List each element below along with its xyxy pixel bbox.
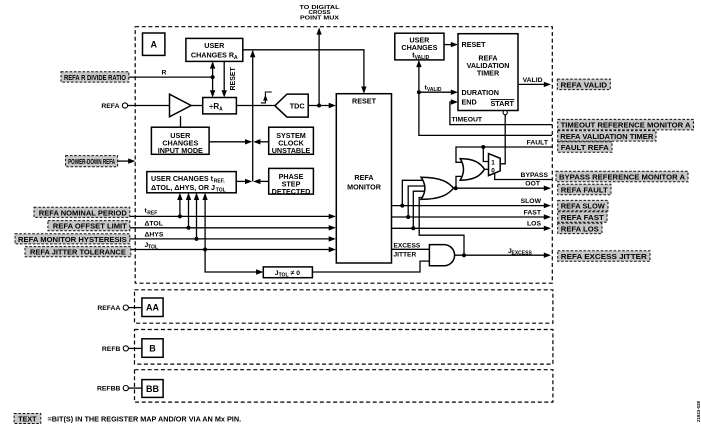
svg-text:=BIT(S) IN THE REGISTER MAP AN: =BIT(S) IN THE REGISTER MAP AND/OR VIA A… — [48, 414, 242, 423]
svg-text:≠ 0: ≠ 0 — [291, 270, 301, 277]
wire POWER-DOWN REFA arrow — [118, 158, 136, 163]
node FAST riser — [406, 186, 424, 219]
comparator JTOL not equal 0 — [263, 267, 312, 279]
dashed channel box A — [135, 27, 552, 284]
svg-text:RESET: RESET — [462, 40, 487, 49]
svg-text:VALID: VALID — [523, 77, 543, 84]
svg-text:BB: BB — [146, 384, 159, 394]
svg-text:REFA LOS: REFA LOS — [561, 224, 599, 233]
register REFA FAULT — [558, 184, 611, 195]
wire JTOL down to comparator — [205, 250, 263, 275]
svg-text:TOL: TOL — [216, 188, 226, 194]
svg-text:BYPASS: BYPASS — [521, 172, 549, 179]
register REFA SLOW — [558, 200, 608, 211]
svg-text:B: B — [149, 343, 156, 353]
svg-text:SLOW: SLOW — [521, 198, 542, 205]
wire R down into divider — [210, 77, 215, 97]
svg-text:RESET: RESET — [352, 96, 377, 105]
svg-text:FAULT: FAULT — [527, 140, 549, 147]
svg-text:REFA: REFA — [354, 173, 373, 182]
wire JTOL line — [131, 242, 336, 252]
svg-text:CHANGES: CHANGES — [401, 43, 437, 52]
svg-text:REFBB: REFBB — [97, 386, 121, 393]
pin REFAA — [97, 305, 142, 312]
wire tVALID up into user changes tvalid — [416, 60, 421, 92]
svg-text:REFA VALIDATION TIMER: REFA VALIDATION TIMER — [560, 132, 654, 141]
svg-text:VALID: VALID — [427, 87, 442, 93]
svg-text:OOT: OOT — [525, 181, 541, 188]
TDC block — [275, 94, 308, 117]
node tVALID — [417, 90, 421, 94]
svg-text:JITTER: JITTER — [394, 251, 417, 258]
wire START down to mux output — [500, 115, 505, 164]
svg-text:A: A — [150, 39, 157, 49]
svg-text:REFA: REFA — [101, 103, 119, 110]
svg-text:START: START — [491, 99, 515, 108]
label TO DIGITAL CROSS POINT MUX — [300, 5, 341, 22]
wire tVALID to DURATION — [419, 84, 458, 95]
wire dHYS line — [130, 232, 336, 242]
register REFA NOMINAL PERIOD — [34, 207, 130, 217]
register REFA MONITOR HYSTERESIS — [15, 234, 130, 244]
svg-text:TOL: TOL — [148, 245, 158, 251]
node TDC output — [317, 104, 321, 108]
dashed channel box AA — [135, 290, 553, 323]
wire to digital cross point mux — [317, 27, 322, 105]
register REFA VALID — [557, 79, 610, 90]
register REFA VALIDATION TIMER — [558, 131, 656, 142]
register TEXT legend — [14, 414, 41, 424]
wire small OR output to mux input 0 — [485, 168, 489, 170]
svg-text:R: R — [162, 70, 167, 77]
svg-text:RESET: RESET — [230, 66, 237, 90]
register BYPASS REFERENCE MONITOR A — [556, 171, 688, 182]
svg-text:UNSTABLE: UNSTABLE — [272, 146, 311, 155]
dashed channel box B — [135, 330, 553, 365]
svg-text:EXCESS: EXCESS — [512, 250, 533, 256]
wire OOT output — [456, 181, 551, 191]
wire R from divide ratio register — [129, 70, 213, 78]
wire JEXCESS output — [455, 248, 551, 258]
wire BYPASS select — [495, 172, 552, 180]
node LOS riser — [411, 191, 424, 230]
wire EXCESS JITTER to AND gate — [392, 242, 430, 258]
node FAULT — [481, 145, 485, 149]
register FAULT REFA — [558, 142, 612, 153]
pin REFB — [102, 346, 142, 353]
svg-text:REF: REF — [147, 210, 157, 216]
svg-text:TIMER: TIMER — [477, 69, 500, 78]
OR gate U2 (2-input) — [460, 159, 484, 181]
node JTOL riser — [202, 193, 207, 252]
box SYSTEM CLOCK UNSTABLE — [269, 127, 314, 155]
wire user changes tref to collector — [236, 179, 252, 184]
svg-text:AA: AA — [146, 303, 159, 313]
wire collector up-arrow into reset wire — [250, 50, 255, 181]
svg-text:ΔTOL, ΔHYS, OR J: ΔTOL, ΔHYS, OR J — [151, 183, 215, 192]
svg-text:USER CHANGES t: USER CHANGES t — [151, 174, 214, 183]
svg-text:REFA R DIVIDE RATIO: REFA R DIVIDE RATIO — [64, 73, 126, 82]
svg-text:REFA EXCESS JITTER: REFA EXCESS JITTER — [561, 252, 648, 261]
block REFA MONITOR — [336, 94, 391, 263]
svg-text:ΔTOL: ΔTOL — [145, 220, 163, 227]
svg-text:REFA MONITOR HYSTERESIS: REFA MONITOR HYSTERESIS — [18, 235, 127, 244]
svg-text:TIMEOUT: TIMEOUT — [452, 116, 483, 123]
block REFA VALIDATION TIMER — [458, 34, 518, 111]
register REFA JITTER TOLERANCE — [25, 247, 131, 257]
box PHASE STEP DETECTED — [269, 168, 314, 196]
svg-text:FAULT REFA: FAULT REFA — [561, 143, 609, 152]
wire reset from USER CHANGES RA to REFA MONITOR — [243, 50, 367, 94]
phase step glyph — [261, 92, 272, 103]
wire RESET from USER CHANGES RA to divider — [222, 61, 237, 97]
OR gate U1 (4-input) — [421, 177, 454, 199]
register REFA LOS — [558, 223, 602, 234]
wire tVALID from REFA VALIDATION TIMER register — [419, 92, 552, 135]
svg-text:BYPASS REFERENCE MONITOR A: BYPASS REFERENCE MONITOR A — [559, 173, 685, 182]
svg-text:MONITOR: MONITOR — [347, 182, 382, 191]
wire FAULT line — [456, 140, 552, 163]
buffer amplifier — [170, 94, 192, 117]
wire LOS line — [392, 221, 552, 231]
wire JEXCESS feedback riser to OR input 4 — [419, 198, 464, 256]
svg-text:VALID: VALID — [415, 55, 430, 61]
identifier box AA — [142, 298, 163, 317]
wire R up into USER CHANGES RA — [210, 61, 215, 77]
wire SLOW line — [392, 198, 552, 208]
register POWER-DOWN REFA — [66, 156, 118, 167]
svg-text:TDC: TDC — [290, 101, 305, 110]
pin REFA — [101, 103, 127, 110]
register REFA OFFSET LIMIT — [48, 221, 130, 231]
svg-text:LOS: LOS — [527, 221, 541, 228]
pin START bubble — [503, 111, 507, 115]
node JEXCESS — [462, 253, 466, 257]
wire buffer to USER CHANGES INPUT MODE — [180, 116, 182, 127]
svg-text:REF,: REF, — [214, 179, 225, 185]
svg-text:ΔHYS: ΔHYS — [145, 232, 164, 239]
svg-text:TIMEOUT REFERENCE MONITOR A: TIMEOUT REFERENCE MONITOR A — [561, 121, 691, 130]
svg-text:FAST: FAST — [524, 209, 542, 216]
svg-text:REFA NOMINAL PERIOD: REFA NOMINAL PERIOD — [39, 208, 127, 217]
register REFA R DIVIDE RATIO — [61, 72, 129, 82]
svg-text:DETECTED: DETECTED — [272, 187, 311, 196]
identifier box BB — [142, 380, 163, 398]
wire FAST line — [392, 209, 552, 219]
svg-text:REFB: REFB — [102, 346, 121, 353]
svg-text:DURATION: DURATION — [462, 88, 499, 97]
wire FAULT node to mux input 1 — [483, 147, 488, 162]
AND gate U3 — [429, 245, 454, 266]
wire tREF line — [130, 208, 336, 219]
node R — [211, 75, 215, 79]
node OOT — [454, 186, 458, 190]
svg-text:EXCESS: EXCESS — [394, 242, 421, 249]
box USER CHANGES tREF dTOL dHYS JTOL — [147, 172, 236, 194]
svg-text:1: 1 — [491, 159, 495, 166]
wire phase step detected to collector — [253, 179, 269, 184]
wire system clock unstable to collector — [253, 139, 269, 144]
svg-text:END: END — [462, 98, 477, 107]
svg-text:POINT MUX: POINT MUX — [300, 16, 339, 22]
svg-text:REFA FAULT: REFA FAULT — [561, 186, 609, 195]
box USER CHANGES RA — [186, 38, 243, 61]
node dHYS riser — [194, 193, 199, 241]
wire input mode to collector — [209, 139, 252, 144]
identifier box B — [142, 339, 163, 358]
svg-text:REFAA: REFAA — [97, 305, 120, 312]
svg-text:INPUT MODE: INPUT MODE — [158, 146, 203, 155]
box USER CHANGES INPUT MODE — [151, 127, 209, 155]
node dTOL riser — [186, 193, 191, 230]
svg-text:TOL: TOL — [279, 272, 289, 278]
wire dTOL line — [130, 220, 336, 230]
identifier box A — [143, 33, 165, 55]
wire TDC to REFA MONITOR — [308, 103, 336, 108]
wire REFA to buffer — [128, 105, 170, 107]
box USER CHANGES tVALID — [395, 33, 444, 61]
svg-text:POWER-DOWN REFA: POWER-DOWN REFA — [68, 157, 115, 166]
svg-text:REFA VALID: REFA VALID — [561, 80, 608, 89]
divider R_A box — [203, 98, 237, 114]
svg-text:REFA SLOW: REFA SLOW — [561, 202, 605, 211]
pin REFBB — [97, 386, 142, 393]
register REFA EXCESS JITTER — [558, 251, 650, 261]
mux bypass — [489, 154, 501, 176]
wire divider to TDC — [236, 105, 275, 107]
register REFA FAST — [558, 212, 607, 223]
svg-text:REFA JITTER TOLERANCE: REFA JITTER TOLERANCE — [30, 248, 126, 257]
wire OOT node to small OR input — [456, 176, 465, 188]
wire buffer to divider — [191, 105, 203, 107]
node SLOW riser — [400, 180, 424, 207]
register TIMEOUT REFERENCE MONITOR A — [558, 119, 694, 129]
dashed channel box BB — [135, 370, 553, 402]
svg-text:USER: USER — [204, 41, 225, 50]
node tREF riser — [177, 193, 182, 219]
svg-text:21923-028: 21923-028 — [696, 400, 701, 422]
svg-text:REFA OFFSET LIMIT: REFA OFFSET LIMIT — [53, 222, 128, 231]
wire comparator to AND gate — [312, 261, 429, 272]
wire TIMEOUT register to END — [450, 99, 552, 124]
svg-text:TEXT: TEXT — [18, 414, 37, 423]
svg-text:REFA FAST: REFA FAST — [561, 213, 605, 222]
wire VALID output — [518, 77, 551, 87]
wire user changes tvalid to timer reset — [444, 42, 458, 47]
